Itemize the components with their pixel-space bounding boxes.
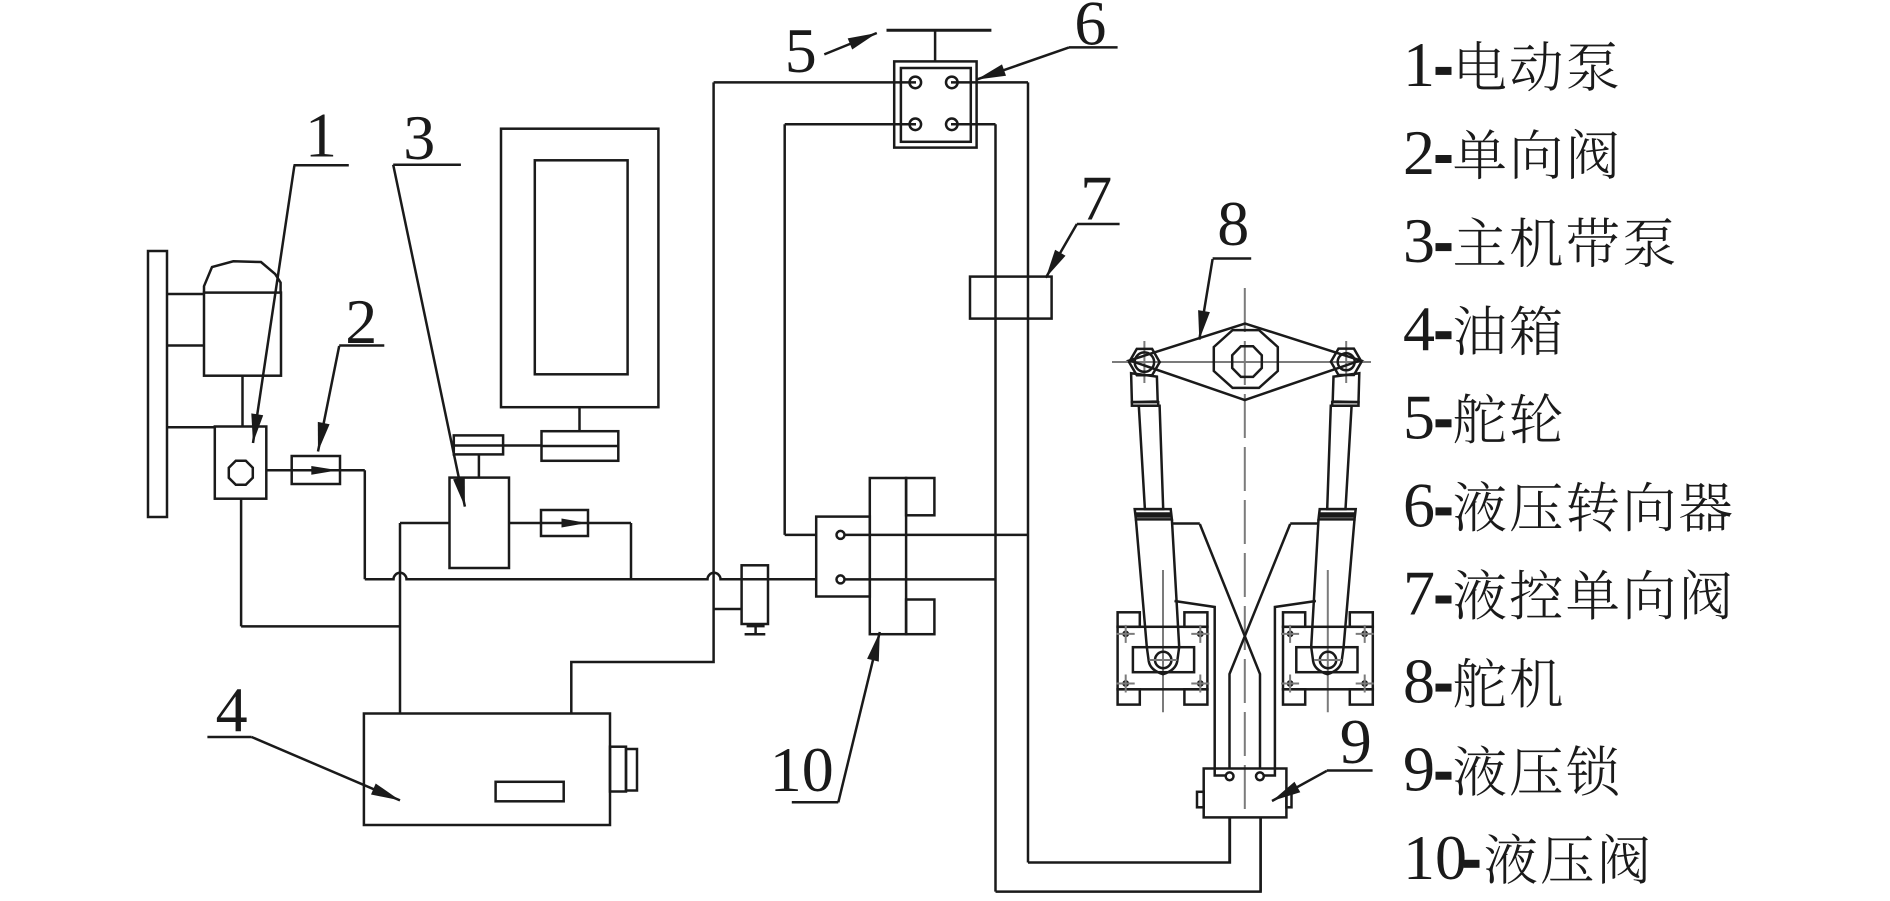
right cylinder drain pipe — [1264, 601, 1316, 776]
wire pump 3 outlet — [509, 522, 631, 525]
bracket top-left tab — [1283, 612, 1305, 627]
pump 3 pulley midline — [454, 444, 503, 447]
label 2 underline — [339, 344, 384, 347]
svg-text:6: 6 — [1403, 469, 1435, 540]
bracket bolt 2 — [1191, 625, 1209, 643]
label 8 leader — [1199, 259, 1212, 340]
svg-text:6: 6 — [1074, 0, 1106, 59]
wire valve 10 lower port to riser x995 — [845, 578, 996, 581]
right clevis cap band — [1332, 402, 1358, 406]
bracket bottom-left tab — [1283, 689, 1305, 704]
left cylinder body with fork — [1136, 519, 1179, 674]
right cylinder centerline — [1327, 570, 1329, 712]
relief valve drain bar 1 — [747, 624, 765, 627]
return pipe from steering gear port A — [571, 82, 713, 713]
svg-text:8: 8 — [1217, 188, 1249, 259]
left pivot hex nut — [1129, 349, 1160, 375]
hydraulic valve 10 left block — [816, 517, 870, 597]
bracket bolt 1 — [1117, 625, 1135, 643]
bracket bolt 4 — [1191, 675, 1209, 693]
wire pump 1 suction down — [240, 499, 243, 627]
lock right side tab — [1286, 793, 1291, 808]
svg-text:3: 3 — [403, 102, 435, 173]
check valve 2 flow arrow — [311, 466, 338, 475]
pilot operated check valve 7 body — [970, 277, 1052, 319]
crossover pipe right-to-left — [1230, 524, 1291, 769]
label 4 leader — [252, 737, 400, 800]
wire x784 corner to valve 10 upper port — [785, 534, 817, 537]
label 7 underline — [1077, 223, 1120, 226]
svg-text:9: 9 — [1340, 706, 1372, 777]
bracket pocket — [1296, 647, 1357, 672]
wire wall to pump 1 — [167, 426, 215, 429]
label 8 underline — [1213, 257, 1252, 260]
label 3 underline — [393, 164, 461, 167]
right pivot pin circle — [1338, 353, 1355, 370]
tiller horizontal centerline — [1112, 361, 1371, 363]
relief valve body on bus — [742, 565, 768, 624]
bracket bottom-right tab — [1350, 689, 1373, 704]
svg-text:1: 1 — [305, 100, 337, 171]
label 9 underline — [1327, 769, 1373, 772]
hydraulic valve 10 top-right block — [906, 478, 934, 515]
left pivot pin circle — [1135, 352, 1154, 371]
steering wheel bar — [887, 29, 992, 32]
label 2 leader — [318, 346, 339, 452]
right cylinder gland — [1319, 509, 1356, 519]
right cylinder port stub — [1290, 522, 1318, 525]
left cylinder port stub — [1173, 522, 1200, 525]
label 7 leader — [1046, 224, 1077, 278]
bracket bolt 2 — [1356, 625, 1374, 643]
wire suction to pump 3 — [400, 522, 450, 525]
svg-text:9: 9 — [1403, 734, 1435, 805]
electric motor dome cap — [204, 261, 281, 292]
wire branch to relief valve — [714, 608, 742, 611]
label 1 underline — [294, 164, 349, 167]
label 5 leader — [824, 33, 877, 54]
label 6 underline — [1069, 46, 1118, 49]
rudder stock inner octagon — [1232, 346, 1262, 377]
electric motor body — [204, 293, 281, 376]
left cylinder gland — [1135, 509, 1172, 519]
wall mounting plate — [148, 251, 167, 517]
engine coupling block — [542, 431, 619, 461]
bracket bottom-left tab — [1118, 689, 1140, 704]
check valve after pump 3 — [541, 510, 588, 536]
label 1 leader — [253, 166, 294, 444]
belt line coupling to pulley — [503, 444, 541, 447]
right cylinder body with fork — [1311, 519, 1354, 674]
oil tank side flange outer — [610, 747, 626, 792]
tiller rhombus — [1130, 324, 1361, 401]
svg-text:10: 10 — [1403, 822, 1467, 893]
left rod clevis — [1131, 373, 1158, 402]
oil tank sight glass — [496, 782, 564, 802]
left clevis cap band — [1132, 402, 1158, 406]
bracket bottom-right tab — [1184, 689, 1207, 704]
lock right outlet pipe down — [1259, 817, 1262, 891]
check valve 2 body — [292, 456, 340, 484]
hydraulic steering gear 6 outer case — [894, 61, 976, 147]
label 4 underline — [207, 736, 251, 739]
riser x1028 full height — [1027, 82, 1030, 862]
steering wheel stem — [934, 30, 937, 61]
left pivot vertical centerline — [1143, 341, 1145, 383]
bracket top-right tab — [1184, 612, 1207, 627]
hydraulic valve 10 middle column — [870, 478, 906, 634]
lock right port circle — [1256, 772, 1264, 780]
engine output stem — [578, 407, 581, 431]
label 3 leader — [393, 165, 465, 507]
bracket bolt 3 — [1117, 675, 1135, 693]
valve 10 lower port circle — [837, 575, 845, 583]
rudder stock vertical centerline — [1244, 288, 1246, 813]
svg-text:4: 4 — [1403, 293, 1435, 364]
hydraulic lock 9 body — [1204, 769, 1287, 818]
bracket pin circle — [1149, 652, 1177, 668]
hydraulic valve 10 bottom-right block — [906, 600, 934, 635]
cylinder mounting bracket body — [1118, 627, 1208, 690]
cylinder mounting bracket body — [1283, 627, 1373, 690]
left cylinder centerline — [1162, 570, 1164, 712]
right rod clevis — [1333, 373, 1360, 402]
svg-text:3: 3 — [1403, 205, 1435, 276]
relief valve drain bar 2 — [745, 633, 766, 636]
wire valve 10 upper port to riser x1028 — [845, 534, 1029, 537]
svg-text:7: 7 — [1403, 558, 1435, 629]
motor mount upper arm — [167, 293, 204, 296]
wire port TR to right riser — [951, 81, 1028, 84]
steering gear port circle top-right — [946, 77, 958, 89]
wire pump 1 suction to junction — [241, 625, 400, 628]
right pivot hex nut — [1331, 349, 1362, 375]
svg-text:10: 10 — [770, 734, 834, 805]
bottom run from riser x1028 to lock — [1028, 817, 1230, 862]
rudder stock outer octagon — [1214, 330, 1278, 388]
bracket bolt 1 — [1281, 625, 1299, 643]
check valve pump3 flow arrow — [562, 519, 588, 528]
lock left side tab — [1197, 792, 1204, 808]
label 10 leader — [838, 632, 880, 802]
bracket pin circle — [1314, 652, 1342, 668]
bottom run from riser x995 to lock — [996, 817, 1261, 891]
left gland black band — [1135, 512, 1172, 518]
left cylinder drain pipe — [1175, 601, 1227, 776]
label 6 leader — [977, 47, 1069, 79]
valve 10 upper port circle — [837, 531, 845, 539]
right piston rod — [1327, 406, 1351, 509]
hydraulic steering gear 6 inner case — [901, 68, 971, 142]
motor shaft to pump 1 — [241, 376, 244, 427]
suction riser x400 — [399, 523, 402, 714]
crossover pipe left-to-right — [1200, 524, 1260, 769]
svg-text:1: 1 — [1403, 29, 1435, 100]
svg-text:8: 8 — [1403, 646, 1435, 717]
bracket bolt 4 — [1356, 675, 1374, 693]
bracket pocket — [1133, 647, 1194, 672]
lock left port circle — [1226, 772, 1234, 780]
riser x995 full height — [994, 124, 997, 891]
riser x784 down to valve 10 — [783, 124, 786, 535]
label 9 leader — [1272, 771, 1327, 801]
electric pump 1 body — [215, 427, 266, 499]
wire port BL to mid riser — [785, 123, 916, 126]
bracket top-right tab — [1350, 612, 1373, 627]
wire pump 1 to check valve 2 — [266, 469, 365, 472]
svg-text:2: 2 — [1403, 117, 1435, 188]
svg-text:5: 5 — [785, 15, 817, 86]
steering gear port circle top-left — [910, 77, 922, 89]
pump 3 pulley block — [454, 435, 503, 454]
wire port TL to left riser — [714, 81, 916, 84]
motor mount lower arm — [167, 344, 204, 347]
right gland black band — [1319, 512, 1356, 518]
right pivot vertical centerline — [1345, 341, 1347, 383]
pump 3 drive stem — [478, 454, 481, 477]
steering gear port circle bottom-right — [946, 119, 958, 131]
lock left outlet pipe down — [1228, 817, 1231, 862]
main engine inner case — [535, 160, 628, 374]
bracket bolt 3 — [1281, 675, 1299, 693]
engine driven pump 3 body — [450, 478, 510, 568]
electric pump 1 octagon symbol — [229, 461, 253, 485]
oil tank 4 body — [364, 714, 610, 826]
wire port BR to riser x995 — [951, 123, 996, 126]
suction bus line with crossover hops — [365, 573, 816, 580]
left piston rod — [1139, 406, 1163, 509]
bracket top-left tab — [1118, 612, 1140, 627]
svg-text:4: 4 — [216, 674, 248, 745]
steering gear port circle bottom-left — [910, 119, 922, 131]
oil tank side flange inner — [626, 749, 637, 791]
label 10 underline — [792, 801, 839, 804]
engine coupling block midline — [542, 445, 619, 448]
main engine outer case — [501, 129, 658, 408]
wire pump 3 outlet down to bus — [630, 523, 633, 579]
wire check valve 2 down to bus — [364, 470, 367, 579]
svg-text:5: 5 — [1403, 381, 1435, 452]
relief valve drain stem — [754, 626, 757, 633]
